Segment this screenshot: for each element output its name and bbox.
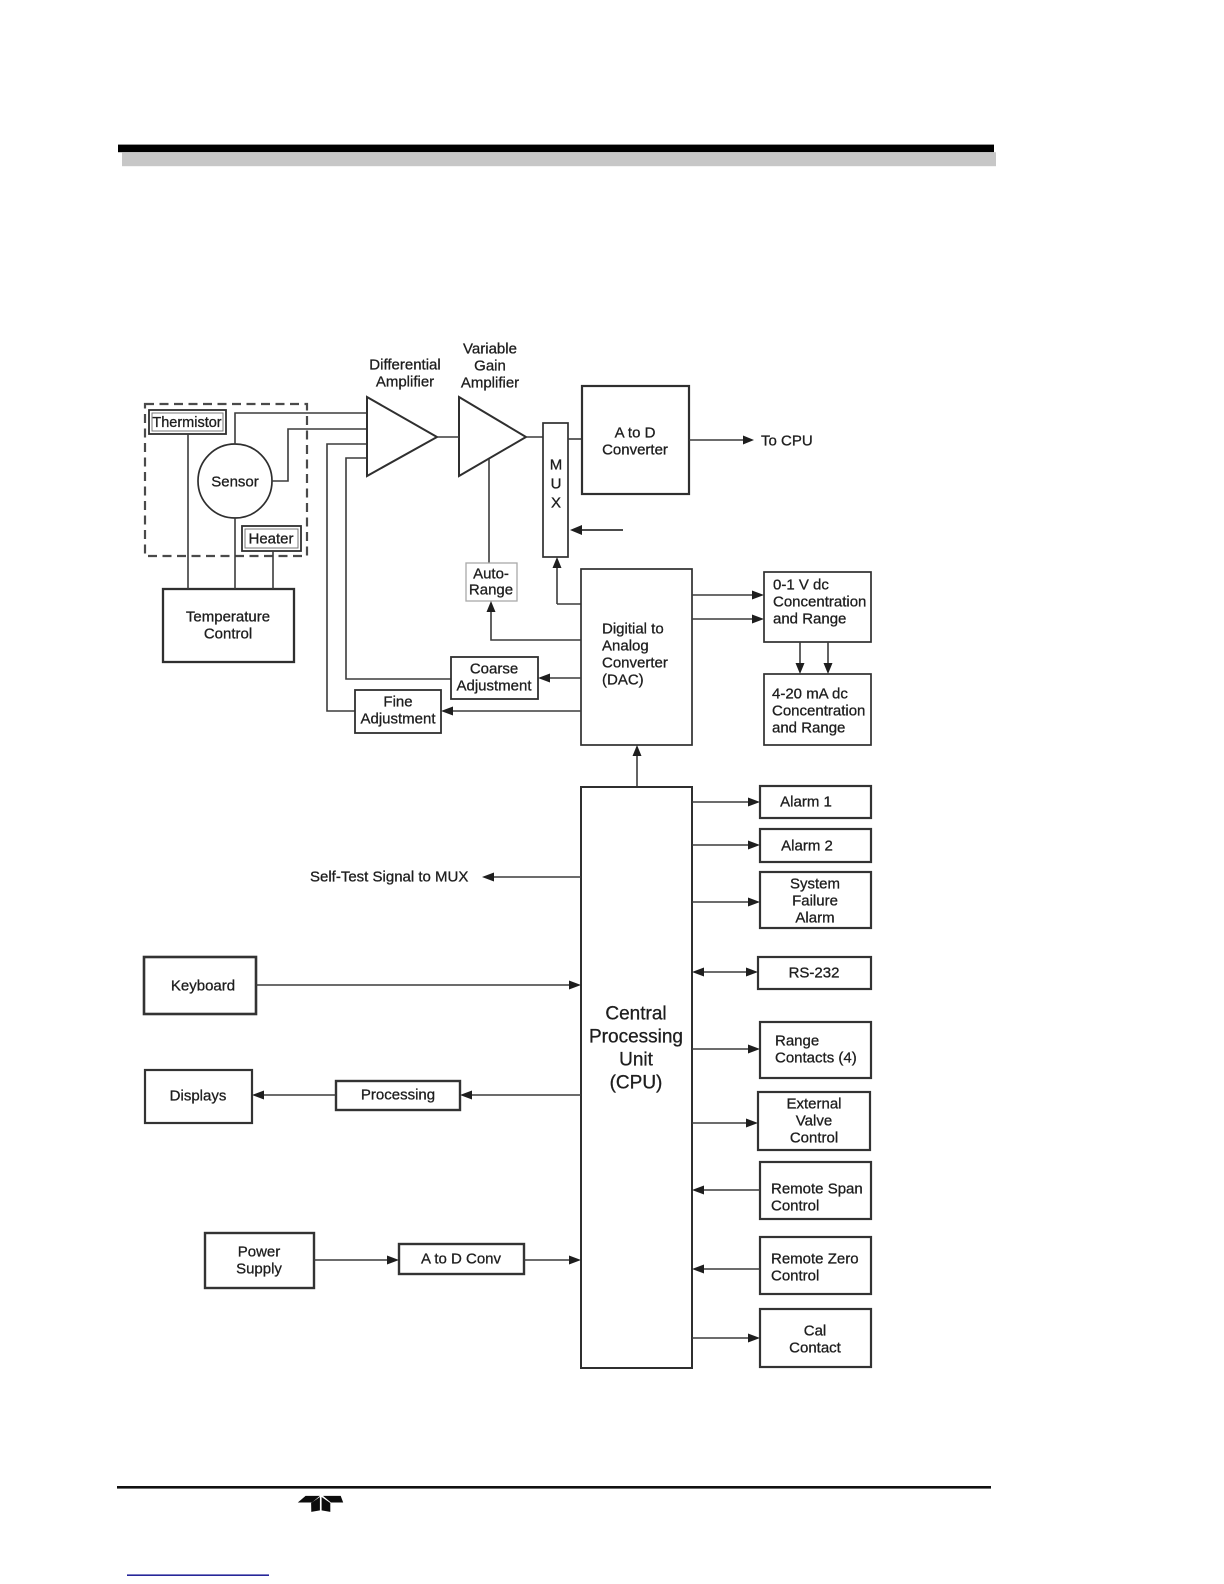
arrow CPU to processing	[460, 1091, 581, 1100]
variable gain amplifier triangle	[459, 397, 526, 476]
svg-text:Cal: Cal	[804, 1323, 827, 1340]
arrow CPU to alarm 1	[692, 798, 760, 807]
arrow CPU to system failure alarm	[692, 898, 760, 907]
svg-text:Alarm 2: Alarm 2	[781, 838, 833, 855]
svg-text:Converter: Converter	[602, 442, 668, 459]
arrow keyboard to CPU	[256, 981, 581, 990]
svg-text:Alarm 1: Alarm 1	[780, 794, 832, 811]
svg-text:4-20 mA dc: 4-20 mA dc	[772, 686, 848, 703]
arrow CPU to alarm 2	[692, 841, 760, 850]
svg-text:External: External	[786, 1096, 841, 1113]
auto-range box	[466, 563, 517, 601]
svg-text:Coarse: Coarse	[470, 661, 518, 678]
label differential amplifier	[369, 357, 440, 391]
svg-text:(DAC): (DAC)	[602, 672, 644, 689]
svg-text:Alarm: Alarm	[795, 910, 834, 927]
differential amplifier triangle	[367, 397, 437, 476]
svg-text:Processing: Processing	[589, 1027, 683, 1048]
arrow A to D conv to CPU	[524, 1256, 581, 1265]
svg-text:Analog: Analog	[602, 638, 649, 655]
svg-text:Digitial to: Digitial to	[602, 621, 664, 638]
svg-text:A to D Conv: A to D Conv	[421, 1251, 502, 1268]
wire sensor right to differential amplifier input 2	[272, 429, 367, 481]
thermistor box	[149, 410, 226, 434]
svg-text:To CPU: To CPU	[761, 433, 813, 450]
wire variable gain amp to auto-range	[488, 459, 490, 563]
svg-text:Temperature: Temperature	[186, 609, 270, 626]
svg-text:Sensor: Sensor	[211, 474, 259, 491]
power supply box	[205, 1233, 314, 1288]
remote span control box	[760, 1162, 871, 1219]
wire fine adjustment to differential amplifier input 3	[327, 444, 367, 711]
svg-text:Concentration: Concentration	[773, 594, 866, 611]
svg-text:Range: Range	[775, 1033, 819, 1050]
wire variable gain amp output to MUX	[526, 436, 543, 438]
alarm 1 box	[760, 786, 871, 818]
arrow DAC to fine adjustment	[441, 707, 581, 716]
arrow A to D converter to CPU	[689, 436, 754, 445]
0-1 V dc concentration and range box	[764, 572, 871, 642]
svg-text:and Range: and Range	[772, 720, 845, 737]
svg-text:Power: Power	[238, 1244, 281, 1261]
svg-text:Supply: Supply	[236, 1261, 282, 1278]
coarse adjustment box	[451, 657, 538, 699]
arrow self-test into MUX right side	[570, 525, 623, 535]
svg-text:Concentration: Concentration	[772, 703, 865, 720]
external valve control box	[758, 1092, 870, 1150]
svg-text:Adjustment: Adjustment	[360, 711, 436, 728]
RS-232 box	[758, 957, 871, 989]
arrow remote zero control to CPU	[692, 1265, 760, 1274]
svg-text:Displays: Displays	[170, 1088, 227, 1105]
svg-text:Differential: Differential	[369, 357, 440, 374]
arrow CPU to range contacts	[692, 1045, 760, 1054]
wire thermistor to temperature control	[187, 434, 189, 589]
alarm 2 box	[760, 829, 871, 862]
wire differential amp output to variable gain amp	[437, 436, 459, 438]
MUX box	[543, 423, 568, 557]
svg-text:Heater: Heater	[248, 531, 293, 548]
label variable gain amplifier	[461, 341, 519, 392]
arrow processing to displays	[252, 1091, 336, 1100]
svg-text:Contacts (4): Contacts (4)	[775, 1050, 857, 1067]
processing box	[336, 1081, 460, 1110]
wire coarse adjustment to differential amplifier input 4	[346, 458, 451, 679]
svg-text:U: U	[551, 476, 562, 493]
arrow CPU to external valve control	[692, 1119, 758, 1128]
svg-text:and Range: and Range	[773, 611, 846, 628]
svg-text:Amplifier: Amplifier	[376, 374, 434, 391]
svg-text:Amplifier: Amplifier	[461, 375, 519, 392]
arrow 0-1 V dc box to 4-20 mA box left	[796, 642, 805, 674]
arrow DAC to auto-range	[487, 601, 582, 640]
temperature control box	[163, 589, 294, 662]
svg-text:RS-232: RS-232	[789, 965, 840, 982]
wire MUX output to A to D converter	[568, 438, 582, 440]
svg-text:Remote Span: Remote Span	[771, 1181, 863, 1198]
cal contact box	[760, 1309, 871, 1367]
header gray bar	[122, 152, 996, 166]
sensor assembly dashed enclosure	[145, 404, 307, 556]
power supply A to D conv box	[399, 1244, 524, 1274]
svg-text:Control: Control	[790, 1130, 838, 1147]
svg-text:X: X	[551, 495, 561, 512]
arrow remote span control to CPU	[692, 1186, 760, 1195]
arrow CPU to cal contact	[692, 1334, 760, 1343]
svg-text:Variable: Variable	[463, 341, 517, 358]
sensor circle	[198, 444, 272, 518]
svg-text:0-1 V dc: 0-1 V dc	[773, 577, 829, 594]
svg-text:Control: Control	[204, 626, 252, 643]
svg-text:Keyboard: Keyboard	[171, 978, 235, 995]
svg-text:Range: Range	[469, 582, 513, 599]
svg-text:(CPU): (CPU)	[610, 1073, 663, 1094]
svg-text:Control: Control	[771, 1268, 819, 1285]
DAC box	[581, 569, 692, 745]
arrow power supply to A to D conv	[314, 1256, 399, 1265]
wire sensor top to differential amplifier input 1	[235, 413, 367, 444]
svg-text:Fine: Fine	[383, 694, 412, 711]
svg-text:Remote Zero: Remote Zero	[771, 1251, 859, 1268]
range contacts box	[760, 1022, 871, 1078]
arrow CPU to DAC bottom	[633, 745, 642, 787]
heater box	[242, 526, 301, 551]
4-20 mA dc concentration and range box	[764, 674, 871, 745]
svg-text:Central: Central	[605, 1004, 666, 1025]
displays box	[145, 1070, 252, 1123]
arrow DAC output 2 to 0-1 V dc box	[692, 615, 764, 624]
svg-text:Self-Test Signal to MUX: Self-Test Signal to MUX	[310, 869, 468, 886]
A to D converter box	[582, 386, 689, 494]
svg-text:Gain: Gain	[474, 358, 506, 375]
keyboard box	[144, 957, 256, 1014]
footer blue underline	[127, 1574, 269, 1576]
wire sensor bottom to temperature control	[234, 518, 236, 589]
svg-text:Contact: Contact	[789, 1340, 842, 1357]
svg-text:A to D: A to D	[615, 425, 656, 442]
svg-text:Processing: Processing	[361, 1087, 435, 1104]
svg-text:Valve: Valve	[796, 1113, 832, 1130]
arrow DAC to coarse adjustment	[538, 674, 581, 683]
footer rule	[117, 1486, 991, 1489]
system failure alarm box	[760, 872, 871, 928]
fine adjustment box	[355, 690, 441, 733]
Teledyne logo	[298, 1496, 343, 1512]
svg-text:M: M	[550, 457, 563, 474]
svg-text:Control: Control	[771, 1198, 819, 1215]
arrow DAC to MUX bottom	[553, 557, 582, 604]
svg-text:System: System	[790, 876, 840, 893]
arrow CPU self-test signal to MUX	[482, 873, 581, 882]
svg-text:Unit: Unit	[619, 1050, 654, 1071]
svg-text:Adjustment: Adjustment	[456, 678, 532, 695]
central processing unit (CPU) box	[581, 787, 692, 1368]
svg-text:Failure: Failure	[792, 893, 838, 910]
remote zero control box	[760, 1237, 871, 1294]
svg-text:Thermistor: Thermistor	[152, 415, 221, 431]
svg-text:Auto-: Auto-	[473, 566, 509, 583]
bidirectional arrow CPU to RS-232	[692, 968, 758, 977]
wire heater to temperature control	[272, 551, 274, 589]
arrow DAC output 1 to 0-1 V dc box	[692, 591, 764, 600]
arrow 0-1 V dc box to 4-20 mA box right	[824, 642, 833, 674]
header black bar	[118, 145, 994, 153]
svg-text:Converter: Converter	[602, 655, 668, 672]
